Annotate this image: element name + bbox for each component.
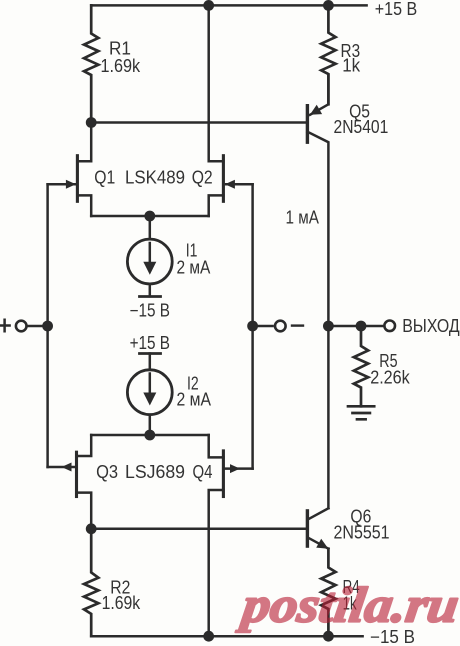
arrow Q5 emitter (310, 105, 322, 115)
terminal + input (16, 321, 27, 332)
resistor R4 (321, 549, 335, 637)
wire - input stub (253, 325, 273, 328)
transistor Q4 (222, 451, 225, 497)
wire - input line (251, 184, 254, 468)
svg-text:1k: 1k (342, 56, 361, 76)
node dot Q1Q2 sources (144, 211, 155, 222)
resistor R1 (84, 5, 98, 122)
minus sign (292, 324, 303, 326)
transistor Q2 (222, 156, 225, 202)
node dot R1 bottom (86, 117, 97, 128)
wire top +15V rail (91, 4, 366, 7)
terminal - input (275, 321, 286, 332)
node dot output R5 (356, 321, 367, 332)
svg-text:postila.ru: postila.ru (235, 577, 460, 633)
svg-text:LSK489: LSK489 (125, 168, 185, 188)
wire + input line (46, 184, 49, 467)
arrow I2 (143, 393, 156, 406)
wire Q3/Q4 common top (91, 434, 209, 437)
arrow Q6 emitter (316, 539, 328, 549)
arrow gate Q3 (62, 463, 72, 472)
resistor R5 (354, 326, 368, 406)
resistor R2 (84, 529, 98, 636)
node dot + input (42, 321, 53, 332)
node dot top rail R3 (323, 0, 334, 11)
arrow gate Q2 (225, 180, 235, 189)
svg-text:1.69k: 1.69k (102, 593, 141, 613)
plus sign (0, 320, 10, 331)
svg-text:−15 В: −15 В (130, 300, 170, 320)
current source I1 (149, 216, 152, 239)
svg-text:Q4: Q4 (193, 462, 213, 482)
wire Q3 drain node to Q6 base (91, 528, 307, 531)
node dot R2 top (86, 523, 97, 534)
svg-text:+15 В: +15 В (375, 0, 417, 19)
wire Q1/Q2 common source (91, 215, 209, 218)
wire bottom -15V rail (91, 635, 362, 638)
arrow gate Q1 (66, 180, 76, 189)
node dot I2 bottom (144, 430, 155, 441)
transistor Q5 (306, 106, 309, 143)
svg-text:ВЫХОД: ВЫХОД (402, 316, 460, 336)
svg-text:Q2: Q2 (192, 168, 213, 188)
wire + input stub (28, 325, 48, 328)
node dot top rail Q2 (203, 0, 214, 11)
node dot - input (247, 321, 258, 332)
svg-text:+15 В: +15 В (130, 333, 170, 353)
transistor Q6 (306, 511, 309, 546)
ground (348, 406, 374, 419)
transistor Q3 (75, 452, 78, 496)
resistor R3 (321, 5, 335, 104)
svg-text:2.26k: 2.26k (370, 368, 410, 388)
svg-text:Q3: Q3 (96, 462, 118, 482)
node dot bottom rail Q4 (203, 631, 214, 642)
wire output node (328, 325, 383, 328)
svg-text:2 мА: 2 мА (177, 390, 212, 410)
node dot output left (323, 321, 334, 332)
svg-text:2N5551: 2N5551 (334, 522, 390, 542)
svg-text:LSJ689: LSJ689 (125, 462, 185, 482)
arrow I1 (143, 262, 156, 275)
wire Q1 drain node to Q5 base (91, 121, 307, 124)
svg-text:2 мА: 2 мА (177, 257, 211, 277)
svg-text:2N5401: 2N5401 (334, 117, 389, 137)
transistor Q1 (76, 156, 79, 202)
svg-text:Q1: Q1 (94, 168, 115, 188)
terminal output (384, 321, 395, 332)
arrow gate Q4 (230, 464, 240, 473)
svg-text:1 мА: 1 мА (286, 208, 319, 228)
watermark postila.ru (235, 577, 460, 633)
current source I2 (140, 352, 161, 355)
node dot bottom rail R4 (323, 631, 334, 642)
svg-text:1.69k: 1.69k (101, 56, 141, 76)
